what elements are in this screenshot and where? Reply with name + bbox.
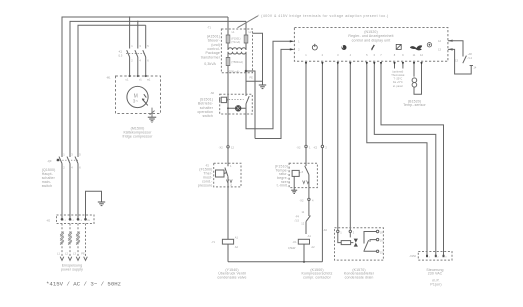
node L1 tap [129, 16, 131, 18]
wire secondary left down [227, 66, 229, 109]
wire limiter bulb ground [293, 176, 295, 190]
svg-text:/1.5: /1.5 [118, 54, 123, 58]
wire limiter to connector X2-4 [308, 188, 310, 199]
thermostat F2 bulb box [216, 170, 227, 177]
motor M1 compressor dashed enclosure [116, 76, 161, 114]
ground limiter [291, 190, 297, 193]
terminal strip X0 [57, 215, 95, 224]
svg-text:(F1501): (F1501) [231, 36, 240, 40]
svg-text:Temp.-sensor: Temp.-sensor [403, 103, 426, 107]
svg-text:3~: 3~ [133, 99, 139, 104]
fuse F3 secondary [226, 58, 230, 66]
svg-text:-X0: -X0 [46, 218, 51, 222]
wire connector to pressure switch [308, 201, 310, 216]
fuse F1 primary left [226, 35, 230, 43]
wire Y1 to N bus [227, 244, 229, 262]
svg-text:-K1: -K1 [118, 50, 123, 54]
node lamp tap [227, 107, 229, 109]
transformer T1 dashed enclosure [221, 29, 252, 73]
label main switch text block [42, 168, 56, 188]
svg-text:-M1: -M1 [106, 76, 111, 80]
relay K2 output terminals [376, 230, 378, 252]
svg-text:t.-limit.: t.-limit. [277, 184, 288, 188]
limiter flow arrows [303, 181, 309, 184]
main switch Q0 poles [57, 157, 79, 164]
svg-text:fridge compressor: fridge compressor [122, 135, 153, 139]
svg-text:control and display unit: control and display unit [352, 38, 391, 42]
svg-text:-T1: -T1 [207, 26, 211, 30]
connector X2-12 [227, 146, 229, 148]
svg-text:-F4: -F4 [295, 215, 299, 219]
wire terminal4 to K2 relay [349, 65, 351, 230]
label X0 [46, 218, 91, 222]
lamp circuit wire [228, 107, 246, 109]
motor M1 circle M 3~ [127, 86, 148, 107]
relay K2 input terminals [337, 230, 352, 232]
terminal strip X152 [418, 252, 452, 261]
label thermostat numbers [230, 164, 232, 187]
svg-text:w1: w1 [147, 78, 151, 82]
label Einspeisung [61, 264, 83, 272]
svg-text:-A8: -A8 [468, 52, 473, 56]
svg-text:(500 mA): (500 mA) [229, 69, 240, 73]
icon fan [410, 45, 422, 50]
sensor B1520 element [412, 78, 417, 87]
svg-text:PE: PE [81, 252, 85, 256]
svg-text:-X152: -X152 [409, 254, 416, 258]
motor M1 terminals U1 V1 W1 [106, 75, 151, 82]
node L2 tap [137, 21, 139, 23]
label limiter text [275, 165, 289, 188]
label motor text [122, 127, 153, 139]
label thermostat text [198, 167, 213, 187]
wire U to motor [129, 57, 131, 76]
wire L2 riser left [70, 21, 246, 157]
PE slash mark [150, 111, 155, 115]
svg-text:(T1mA): (T1mA) [231, 40, 240, 44]
svg-text:switch: switch [203, 114, 213, 118]
wire N bus [228, 261, 322, 263]
svg-text:0,5kW: 0,5kW [288, 246, 296, 250]
wire junction to ground [246, 80, 263, 82]
svg-text:bis +5°C: bis +5°C [393, 80, 403, 84]
wire L3 riser left [78, 25, 146, 157]
svg-text:Thermostat: Thermostat [391, 73, 404, 77]
wire L1 riser left [62, 17, 228, 157]
label fuse values [231, 30, 252, 44]
transformer T1 primary winding [228, 43, 246, 50]
wire L1 drop to contactor [129, 17, 131, 49]
relay K2 dashed enclosure [335, 228, 384, 260]
wire sense line to control unit [255, 49, 291, 138]
fuse F2 primary right [244, 35, 248, 43]
wire K1 coil to N bus [303, 244, 305, 262]
svg-text:power supply: power supply [61, 267, 83, 271]
main switch Q0 handle [57, 159, 59, 161]
icon info circle [427, 43, 431, 47]
wire connector to limiter [305, 148, 307, 166]
svg-text:/1.4: /1.4 [468, 56, 473, 60]
contactor K1 main contacts [126, 50, 146, 57]
svg-text:condensate drain: condensate drain [345, 275, 374, 279]
svg-text:A1: A1 [308, 234, 312, 238]
label control unit header [348, 30, 393, 42]
switch S0 linkage dashed [229, 99, 244, 101]
contactor K1 labels [118, 44, 149, 63]
label transformer text block [201, 34, 221, 66]
svg-text:T -25°C: T -25°C [393, 77, 402, 81]
limiter F3 contact [305, 166, 309, 188]
wire sensor loop [414, 65, 422, 94]
svg-text:-X2: -X2 [299, 198, 304, 202]
wire to F2 thermostat [227, 148, 229, 166]
wire sensor left leg [413, 65, 415, 77]
wire optional stub 9 [402, 65, 404, 69]
connector X2-2 [321, 145, 323, 147]
wire V to motor [137, 57, 139, 76]
svg-text:-X2: -X2 [219, 145, 224, 149]
wire terminal5 cascade [367, 65, 427, 256]
wire terminal1 to connector [305, 65, 307, 145]
remote contact A8 [463, 56, 473, 66]
ground PE supply [98, 202, 105, 206]
svg-text:-X2: -X2 [296, 146, 301, 150]
wire F2 to valve coil [227, 187, 229, 239]
relay K2 changeover contact [364, 232, 376, 252]
svg-text:/1.5: /1.5 [295, 219, 300, 223]
transformer T1 secondary winding [228, 52, 246, 58]
wire S0 right output to control unit [246, 41, 291, 129]
svg-text:-K2: -K2 [323, 228, 328, 232]
svg-text:switch: switch [42, 184, 52, 188]
pressure switch B1 contact [306, 216, 310, 234]
wire connector to N bus [321, 148, 323, 262]
svg-text:(optional): (optional) [392, 69, 403, 73]
svg-text:transformer: transformer [201, 55, 221, 59]
connector X2-1 [305, 145, 307, 147]
node secondary junction [245, 70, 248, 73]
wire PE riser [86, 191, 102, 219]
node K1 bus junction [303, 261, 305, 263]
icon power [312, 44, 317, 50]
svg-text:-Q0: -Q0 [47, 159, 52, 163]
svg-text:pressure: pressure [198, 183, 213, 187]
label contactor text [302, 268, 333, 280]
wire terminal3 to K2 relay [337, 65, 339, 230]
label secondary fuse [229, 60, 253, 79]
wire L3 drop to contactor [145, 25, 147, 48]
control unit N1520 dashed enclosure [294, 28, 448, 62]
wire 415V tap [253, 33, 263, 84]
icon defrost half circle [342, 45, 347, 50]
label valve text [217, 268, 246, 280]
svg-text:-X2: -X2 [313, 146, 318, 150]
limiter F3 bulb box [292, 170, 303, 176]
label sensor text [403, 99, 426, 107]
right terminal arrows [448, 40, 453, 51]
wire optional stub 8 [394, 65, 396, 69]
label Q0 [47, 153, 81, 170]
wire secondary right to junction [245, 55, 247, 95]
svg-text:-S0: -S0 [210, 91, 215, 95]
wire terminal6 cascade [374, 65, 436, 256]
label pressure switch [295, 210, 312, 238]
svg-text:(T500mA): (T500mA) [231, 60, 243, 64]
cable squiggles [60, 232, 80, 245]
svg-text:A2: A2 [235, 245, 239, 249]
contactor coil K1 [298, 239, 309, 244]
svg-text:-K1: -K1 [293, 240, 298, 244]
svg-text:compr. contactor: compr. contactor [303, 275, 332, 279]
svg-text:* (400V & 415V bridge terminal: * (400V & 415V bridge terminals for volt… [258, 14, 389, 18]
wire W to motor [145, 57, 147, 76]
svg-text:A1: A1 [235, 235, 239, 239]
wire primary right drop [245, 21, 247, 35]
wire L3 below switch [77, 164, 79, 220]
wire primary left drop [227, 17, 229, 35]
label icon numbers [298, 39, 441, 57]
wire remote contact bottom [448, 49, 471, 74]
relay K2 valve symbol [354, 239, 358, 247]
thermostat F2 dashed enclosure [214, 163, 241, 187]
svg-text:el. panel: el. panel [393, 84, 403, 88]
svg-text:-Y1: -Y1 [211, 240, 216, 244]
supply feed cables dashed [62, 224, 86, 257]
svg-text:PE: PE [249, 75, 253, 79]
thermostat F2 flow arrows [226, 180, 232, 183]
svg-text:*415V / AC / 3~ / 50Hz: *415V / AC / 3~ / 50Hz [46, 281, 121, 288]
wire junction to sense line [246, 71, 255, 139]
wire motor PE [151, 108, 153, 117]
wire terminal7 cascade [381, 65, 444, 256]
label operation switch text [197, 97, 213, 118]
svg-text:0,3kVA: 0,3kVA [204, 62, 216, 66]
strip X152 terminal pads [426, 255, 445, 257]
wire L1 below switch [61, 164, 63, 220]
wire S0 left output down [227, 108, 229, 145]
wire L2 below switch [69, 164, 71, 220]
svg-text:condensate valve: condensate valve [217, 275, 246, 279]
switch S0 contact [246, 94, 249, 114]
label supply phase names [57, 252, 85, 256]
temp limiter F3 dashed enclosure [289, 163, 317, 187]
icon pen [371, 45, 374, 50]
thermostat F2 contact [225, 168, 228, 187]
label relay K2 text [344, 268, 375, 280]
switch S0 operation dashed enclosure [220, 94, 253, 114]
note callout line [238, 16, 259, 28]
label X152 text [426, 268, 443, 287]
bottom terminal arrows [305, 62, 423, 66]
svg-text:230 VAC: 230 VAC [428, 272, 443, 276]
lamp H1 [236, 106, 241, 111]
svg-text:P1(on): P1(on) [430, 282, 441, 286]
valve coil Y1 [222, 239, 233, 244]
switch S0 actuator box [220, 97, 228, 102]
svg-text:A2: A2 [311, 245, 315, 249]
label optional thermostat block [391, 69, 404, 87]
wire L2 drop to contactor [137, 21, 139, 48]
motor thermal sensor arrow [142, 94, 148, 105]
connector X2-4 [308, 198, 310, 200]
relay K2 coil [338, 233, 354, 245]
left terminal arrows [290, 40, 295, 50]
icon display square [396, 44, 401, 49]
supply arrows [60, 257, 87, 261]
wire terminal2 to connector [321, 65, 323, 145]
wire remote contact top [448, 41, 463, 57]
ground motor PE [148, 117, 156, 122]
ground transformer [259, 85, 266, 89]
label remote contact [455, 52, 477, 69]
